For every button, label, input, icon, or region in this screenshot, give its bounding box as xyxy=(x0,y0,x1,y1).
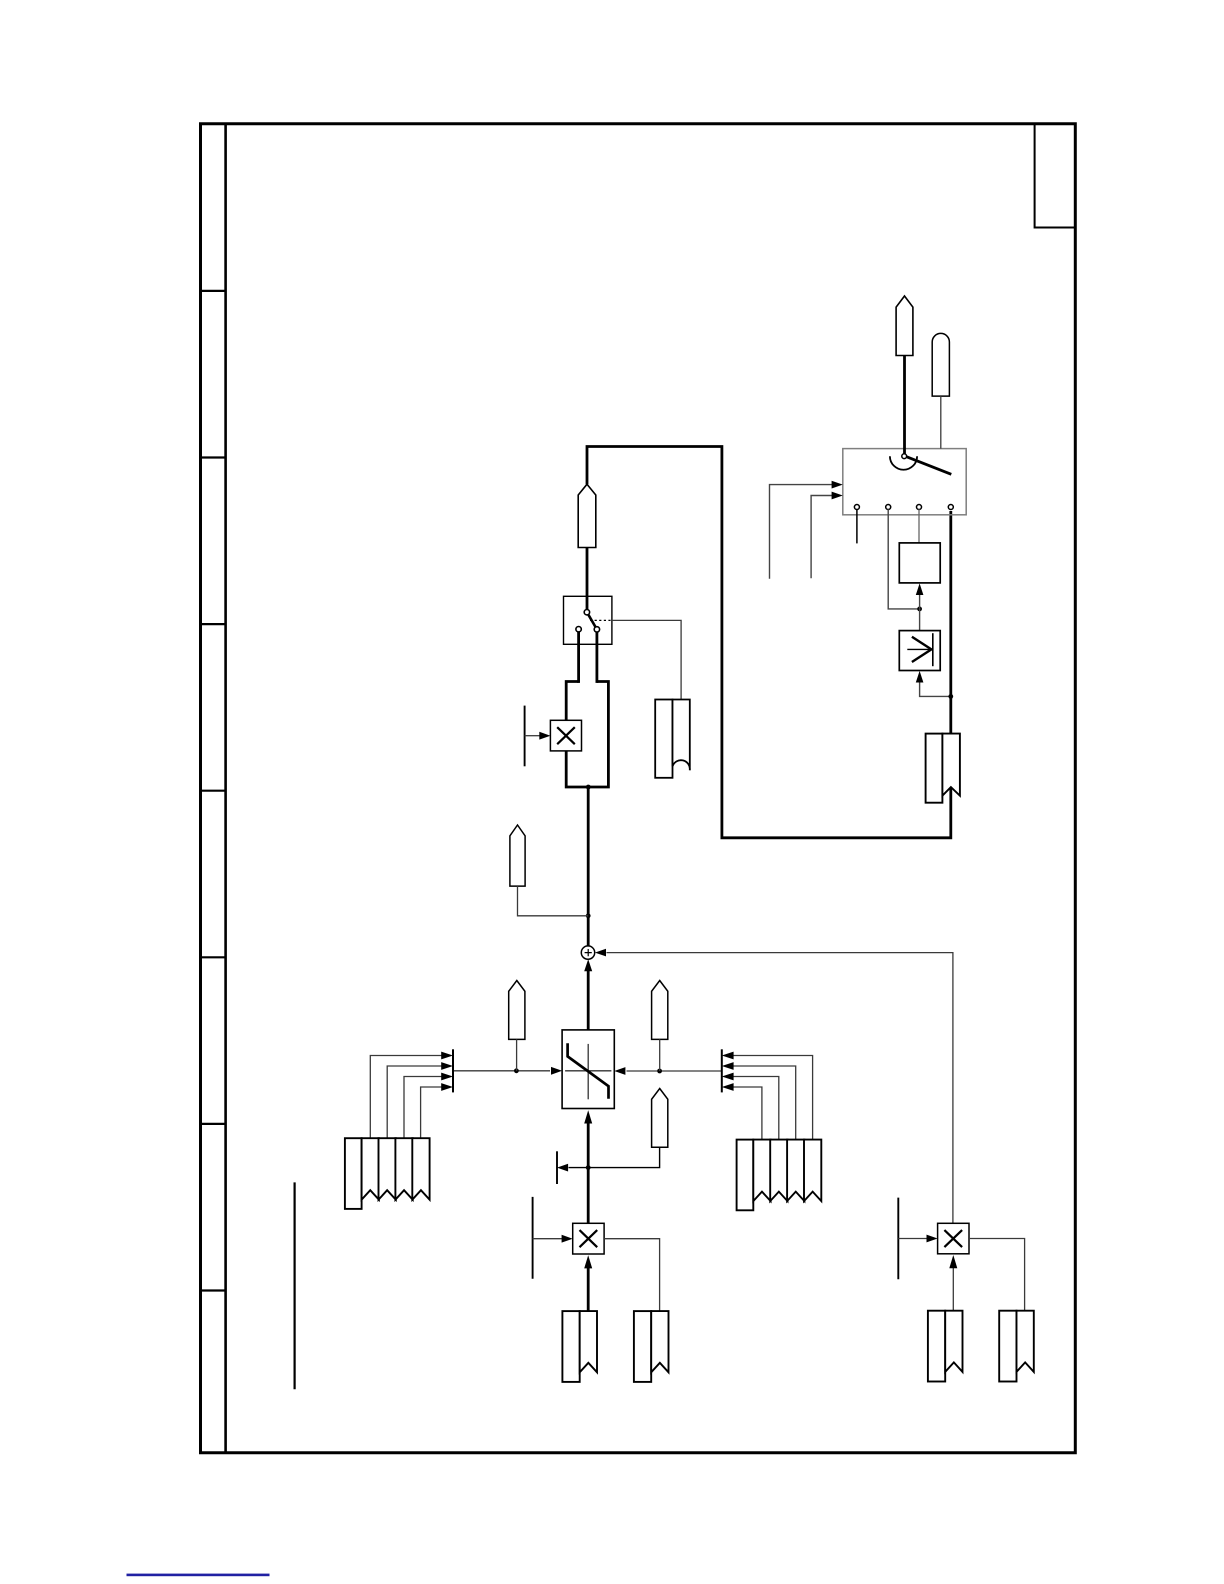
node junction below memory xyxy=(917,607,922,612)
from tag pair G4 (right input of X2) xyxy=(634,1311,669,1382)
from tag pair G3 (below X2) xyxy=(562,1311,597,1382)
manual switch U2 xyxy=(843,449,966,515)
U1 contact circles xyxy=(576,610,600,633)
frame left strip inner line xyxy=(224,124,227,1453)
wire P4 to junction xyxy=(516,1039,518,1070)
U2 bottom contact circles xyxy=(854,505,953,510)
U2 pivot circle xyxy=(902,454,907,459)
drawing frame border xyxy=(201,124,1076,1453)
wire bottom input of X3 (arrow up) xyxy=(952,1266,954,1310)
from tag bundle TR (stacked tags) xyxy=(737,1140,822,1211)
wire P1 bottom to switch U1 input xyxy=(586,548,589,611)
B1 limiter curve xyxy=(568,1043,609,1099)
wire thick feedback path from switch U2 pin4 around to port P1 xyxy=(587,447,951,838)
blue rule bottom-left xyxy=(127,1574,270,1577)
terminator capsule T1 xyxy=(932,333,949,396)
port pentagon P5 xyxy=(652,981,668,1040)
wire P3 to junction xyxy=(518,886,589,916)
left merge bar ML xyxy=(452,1049,454,1092)
wire node up into B2 (arrow) xyxy=(919,595,921,609)
U2 switch arm xyxy=(905,456,952,474)
summing junction S1 xyxy=(581,946,594,959)
wire P2 to U2 pivot (thick) xyxy=(903,356,906,454)
wire U2 pin1 stub xyxy=(856,509,858,543)
switch U1 xyxy=(564,596,612,644)
wire thick pair from U1 contacts into bypass loop xyxy=(566,632,608,787)
wire B1 output down to multiplier X2 (arrow up into B1) xyxy=(587,1122,590,1224)
wires left tag bundle to merge bar xyxy=(370,1056,441,1139)
node loop bottom junction xyxy=(586,785,591,790)
multiplier X2 xyxy=(573,1223,604,1254)
wires right tag bundle to merge bar xyxy=(733,1056,812,1140)
B1 horizontal axis xyxy=(565,1070,611,1072)
port pentagon P4 xyxy=(509,981,525,1040)
hit-crossing block B3 xyxy=(899,631,940,671)
stub bar input of X2 xyxy=(532,1197,534,1279)
frame strip dividers xyxy=(201,291,226,1291)
multiplier X3 xyxy=(938,1223,969,1254)
wire U1 side output to tag G2 xyxy=(612,620,681,699)
node junction under P4 xyxy=(514,1068,519,1073)
wire control input 1 into U2 (arrow) xyxy=(770,485,833,579)
wire from thick feedback line junction into B3 bottom (arrow) xyxy=(920,682,951,696)
from tag pair G2 (arc-notch type) xyxy=(655,700,690,778)
U2 swing arc xyxy=(890,456,917,470)
node junction on feedback line xyxy=(948,694,953,699)
port pentagon P1 xyxy=(578,484,596,547)
U1 dotted throw line xyxy=(590,619,612,621)
wire P5 to junction xyxy=(659,1039,661,1071)
stub bar input of X3 xyxy=(897,1198,899,1280)
wire bypass loop rectangle xyxy=(566,682,608,788)
wire junction to stub bar left xyxy=(569,1167,589,1169)
wire U2 pin2 to node below memory xyxy=(888,509,919,609)
wire saturation block to summing junction (arrow up) xyxy=(587,970,590,1030)
node junction under P5 xyxy=(657,1069,662,1074)
bus stub line bottom-left xyxy=(294,1182,296,1389)
wire thick loop to summing junction xyxy=(587,787,590,946)
node junction below B1 xyxy=(586,1165,591,1170)
from tag pair G5 (below X3) xyxy=(928,1311,963,1382)
multiplier X1 on loop left branch xyxy=(550,720,581,751)
right merge bar MR xyxy=(721,1049,723,1092)
B3 icon chevron arrow xyxy=(912,637,932,662)
wire T1 to U2 top xyxy=(940,396,942,449)
wire left input into B1 xyxy=(453,1070,550,1072)
wire control input 2 into U2 (arrow) xyxy=(811,496,832,579)
wire right input of X2 from tag pair xyxy=(604,1239,660,1311)
node junction with P3 wire xyxy=(586,913,591,918)
MAIN DIAGRAM xyxy=(295,296,1034,1389)
port pentagon P2 above U2 xyxy=(896,296,913,356)
port pentagon P6 xyxy=(652,1089,668,1148)
wire right input of X3 from tag pair xyxy=(969,1239,1025,1311)
wire U2 pin3 into memory block top xyxy=(918,509,920,543)
B1 vertical axis xyxy=(587,1044,589,1099)
from tag pair G6 (right input of X3) xyxy=(999,1311,1034,1382)
port pentagon P3 xyxy=(510,825,525,886)
wire bottom input of X2 (thick, arrow up) xyxy=(587,1267,590,1312)
stub bar input of X1 xyxy=(524,706,526,767)
wire junction right up to port P6 xyxy=(588,1147,659,1167)
wire node down into hit-crossing block xyxy=(919,609,921,631)
saturation block B1 xyxy=(562,1030,614,1109)
U1 switch arm xyxy=(587,612,597,629)
stub bar SB2 xyxy=(556,1151,558,1184)
frame top-right notch xyxy=(1035,124,1076,228)
wire from multiplier X3 up into summing junction xyxy=(607,953,953,1224)
goto tag pair G1 (pass-through on feedback wire) xyxy=(926,734,960,803)
memory block B2 xyxy=(899,543,940,583)
wire right input into B1 xyxy=(627,1070,722,1072)
from tag bundle TL (stacked tags) xyxy=(345,1138,430,1209)
